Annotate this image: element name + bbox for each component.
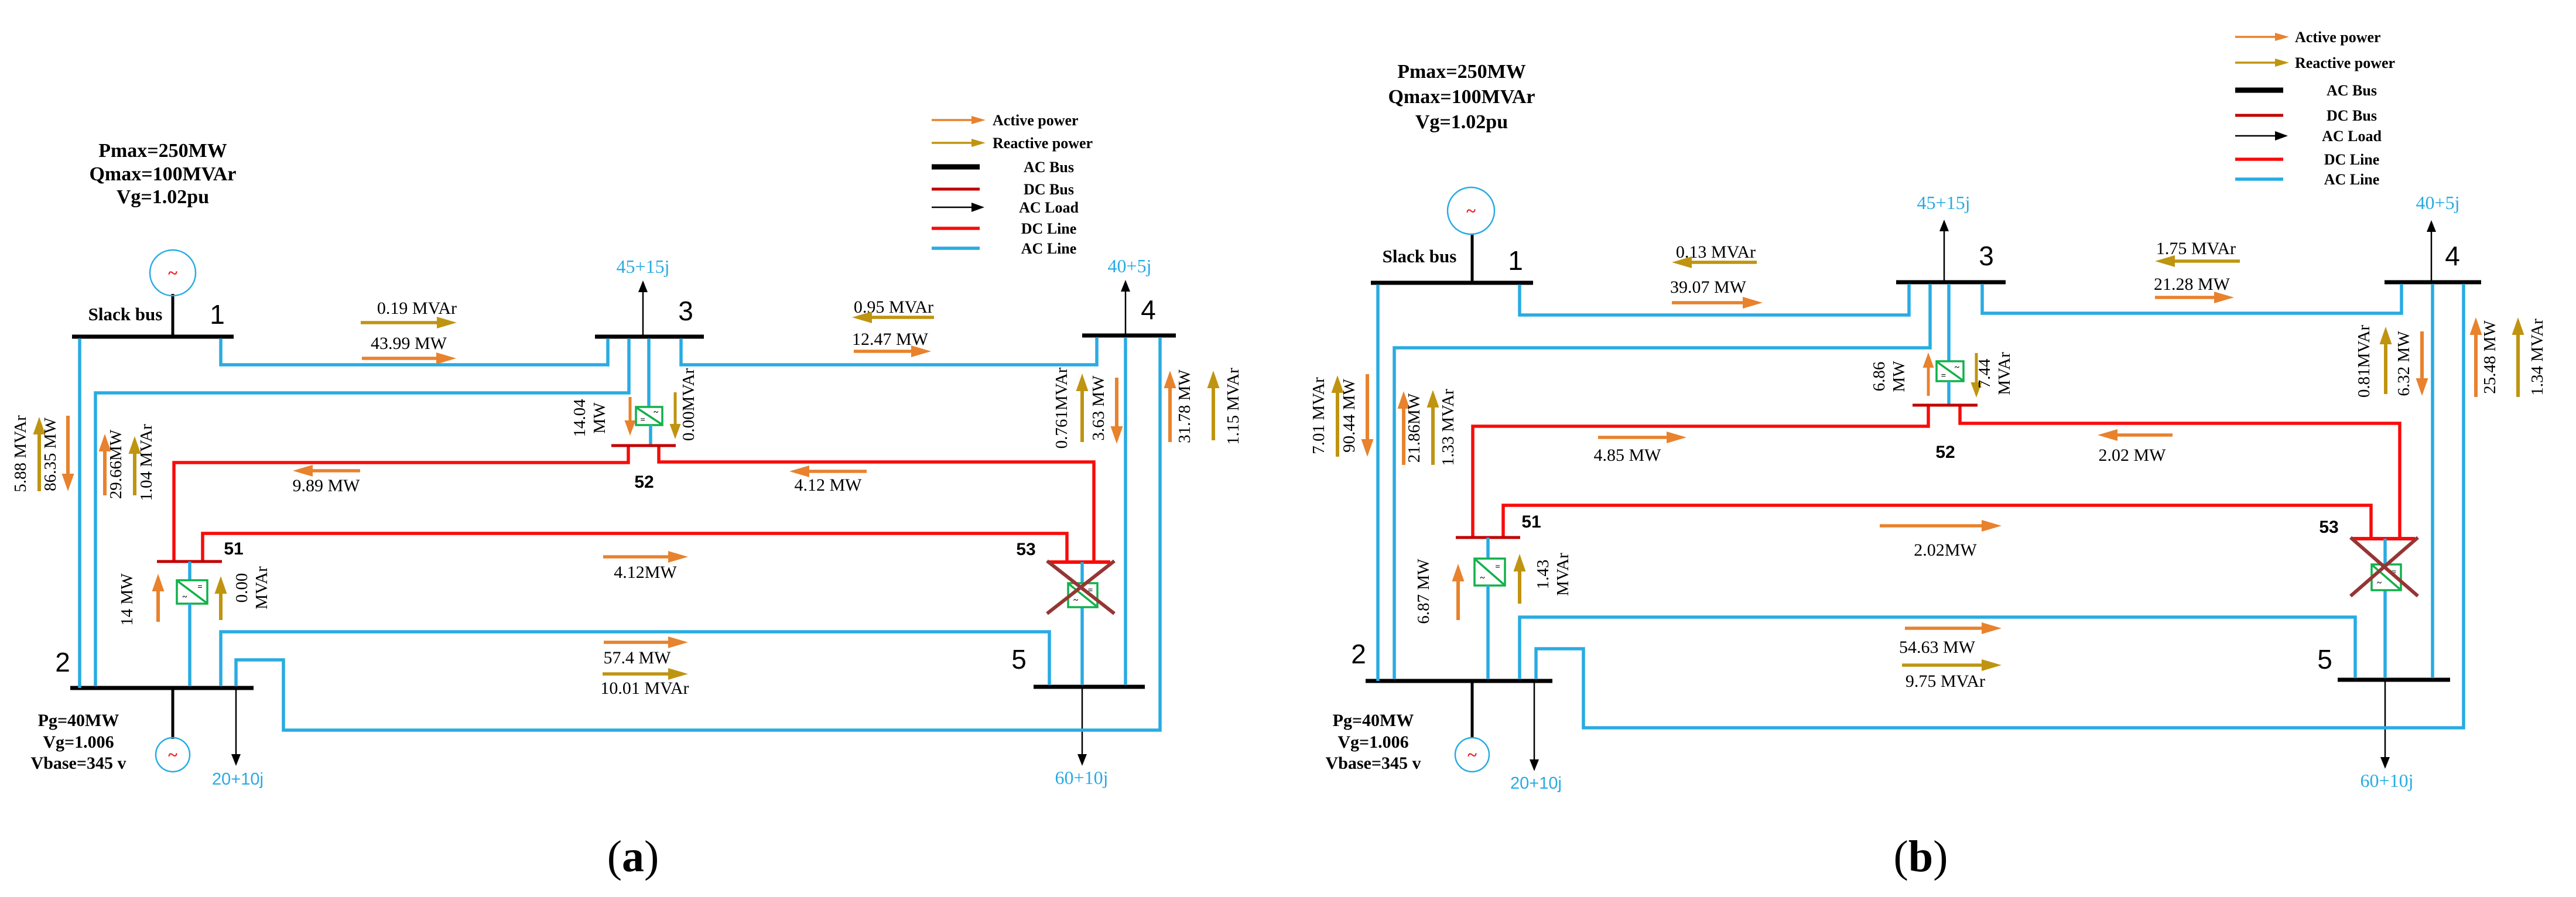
svg-text:Qmax=100MVAr: Qmax=100MVAr [1388, 86, 1535, 108]
svg-text:53: 53 [2319, 518, 2338, 537]
AC load at bus 3 (b) [1939, 220, 1949, 282]
svg-text:90.44 MW: 90.44 MW [1340, 379, 1359, 453]
active power arrow 4.12MW 51-53 (a) [603, 551, 688, 563]
AC bus 3 (a) [595, 335, 704, 339]
svg-text:=: = [197, 583, 203, 592]
DC bus 51 (b) [1456, 536, 1520, 539]
svg-text:~: ~ [1466, 201, 1476, 221]
AC line 2-5 (a) [221, 632, 1049, 686]
svg-text:20+10j: 20+10j [1510, 774, 1562, 793]
AC line 4-5 (b) [2431, 284, 2434, 678]
legend AC Bus swatch (b) [2235, 88, 2283, 93]
svg-text:AC Bus: AC Bus [1024, 159, 1074, 176]
generator G2 (b) [1455, 738, 1489, 772]
svg-text:MVAr: MVAr [1995, 352, 2014, 395]
svg-text:51: 51 [1521, 512, 1541, 532]
AC load at bus 2 (b) [1530, 681, 1539, 771]
svg-text:~: ~ [654, 408, 658, 417]
svg-text:1.43: 1.43 [1534, 560, 1552, 590]
svg-text:AC Load: AC Load [2322, 128, 2382, 145]
reactive power arrow 0.00 MVAr (a) [215, 576, 227, 620]
reactive power arrow 9.75 MVAr (b) [1902, 659, 2002, 671]
legend AC Bus swatch (a) [932, 165, 980, 170]
active power arrow 57.4 MW (a) [604, 636, 688, 648]
svg-text:60+10j: 60+10j [1055, 767, 1109, 788]
svg-text:14.04: 14.04 [570, 399, 589, 437]
DC line 51-52 (a) [174, 447, 628, 560]
svg-text:4.12MW: 4.12MW [614, 563, 677, 582]
svg-text:9.75 MVAr: 9.75 MVAr [1906, 672, 1985, 691]
svg-text:14 MW: 14 MW [118, 573, 136, 626]
active power arrow 9.89 MW (a) [293, 465, 360, 477]
reactive power arrow 0.95 MVAr (a) [852, 311, 934, 323]
generator G1 lead wire (b) [1471, 234, 1474, 285]
svg-text:DC Line: DC Line [2324, 151, 2380, 168]
svg-text:(a): (a) [607, 832, 659, 881]
svg-text:~: ~ [168, 745, 177, 765]
svg-text:DC Bus: DC Bus [2327, 107, 2377, 124]
active power arrow 90.44 MW (b) [1361, 374, 1374, 457]
legend AC Line swatch (b) [2235, 177, 2283, 181]
generator G2 (a) [156, 738, 190, 772]
AC line 1-3 (a) [221, 338, 608, 365]
AC bus 5 (a) [1034, 685, 1145, 689]
DC line 51-52 (b) [1473, 406, 1928, 536]
svg-text:5: 5 [2317, 644, 2332, 675]
DC bus 52 (b) [1913, 404, 1978, 407]
reactive power arrow 7.01 MVAr (b) [1332, 375, 1344, 457]
active power value 6.86 MW (b) [1870, 361, 1908, 392]
active power arrow 39.07 MW (b) [1672, 297, 1763, 309]
DC bus 52 (a) [611, 444, 676, 447]
svg-text:57.4 MW: 57.4 MW [604, 648, 672, 667]
svg-text:Slack bus: Slack bus [1383, 246, 1457, 266]
AC load at bus 5 (a) [1077, 687, 1087, 766]
active power arrow 4.12 MW 52-53 (a) [789, 465, 867, 477]
svg-text:2.02MW: 2.02MW [1914, 540, 1977, 560]
svg-text:4: 4 [2445, 241, 2460, 271]
AC line 3-4 (b) [1982, 284, 2401, 313]
svg-text:40+5j: 40+5j [1108, 255, 1152, 276]
legend Active power arrow (a) [932, 116, 986, 124]
AC line 1-2 (b) [1376, 285, 1380, 681]
active power arrow 12.47 MW (a) [854, 345, 931, 357]
AC load at bus 5 (b) [2380, 680, 2390, 769]
svg-text:52: 52 [1935, 443, 1955, 462]
svg-text:~: ~ [1955, 363, 1959, 372]
svg-text:Vg=1.006: Vg=1.006 [43, 732, 114, 752]
svg-text:0.00MVAr: 0.00MVAr [679, 368, 698, 441]
svg-text:~: ~ [2377, 578, 2382, 588]
AC line 1-2 (a) [78, 338, 81, 688]
svg-text:4.85 MW: 4.85 MW [1594, 446, 1662, 465]
AC bus 2 (a) [70, 686, 254, 690]
legend AC Line swatch (a) [932, 246, 980, 250]
legend Active power arrow (b) [2235, 33, 2289, 41]
svg-text:53: 53 [1016, 540, 1035, 559]
svg-text:Vg=1.02pu: Vg=1.02pu [1415, 111, 1508, 133]
svg-text:0.761MVAr: 0.761MVAr [1052, 367, 1071, 448]
converter 51 AC link lower (a) [188, 604, 191, 686]
reactive power arrow 1.34 MVAr (b) [2512, 317, 2524, 397]
active power arrow 29.66MW (a) [99, 434, 111, 495]
DC line 52-53 (b) [1960, 406, 2400, 537]
svg-text:12.47 MW: 12.47 MW [852, 330, 929, 349]
svg-text:=: = [1941, 371, 1946, 381]
svg-text:5: 5 [1011, 644, 1027, 675]
AC load at bus 3 (a) [638, 280, 648, 337]
active power value 14.04 MW (a) [570, 399, 609, 437]
AC bus 4 (b) [2385, 280, 2481, 285]
svg-text:Reactive power: Reactive power [2295, 54, 2395, 71]
AC load at bus 4 (a) [1121, 280, 1130, 335]
svg-text:~: ~ [1467, 745, 1477, 765]
svg-text:MW: MW [590, 402, 609, 434]
svg-text:7.01 MVAr: 7.01 MVAr [1309, 377, 1328, 454]
converter 51 AC link upper (b) [1486, 537, 1490, 559]
reactive power arrow 1.75 MVAr (b) [2155, 255, 2240, 267]
converter 52 (b) [1937, 361, 1963, 381]
svg-text:0.81MVAr: 0.81MVAr [2355, 324, 2373, 398]
AC line 4-5 (a) [1124, 337, 1127, 685]
converter 53 (a) [1068, 583, 1097, 607]
svg-text:Pmax=250MW: Pmax=250MW [1397, 61, 1526, 83]
active power arrow 54.63 MW (b) [1905, 622, 2002, 634]
active power arrow 6.87 MW (b) [1452, 564, 1465, 620]
AC line 2-3 (b) [1394, 284, 1930, 679]
svg-text:Qmax=100MVAr: Qmax=100MVAr [89, 163, 236, 185]
svg-text:51: 51 [224, 539, 243, 559]
svg-text:45+15j: 45+15j [1917, 192, 1971, 213]
svg-text:54.63 MW: 54.63 MW [1899, 638, 1976, 657]
reactive power arrow 0.81MVAr (b) [2380, 327, 2392, 394]
svg-text:MVAr: MVAr [1554, 553, 1572, 596]
reactive power value 7.44 MVAr (b) [1975, 352, 2014, 395]
legend DC Bus swatch (a) [932, 188, 980, 191]
legend Reactive power arrow (a) [932, 139, 986, 147]
AC bus 1 (b) [1371, 281, 1533, 285]
converter 53 outage cross (b) [2351, 537, 2418, 596]
svg-text:0.19 MVAr: 0.19 MVAr [377, 299, 457, 318]
svg-text:2: 2 [1351, 639, 1366, 669]
DC line 51-53 (b) [1503, 505, 2371, 537]
svg-text:AC Line: AC Line [1021, 240, 1077, 257]
svg-text:=: = [640, 416, 645, 425]
svg-text:MW: MW [1890, 361, 1908, 392]
svg-text:AC Load: AC Load [1019, 199, 1079, 216]
active power arrow 3.63 MW (a) [1111, 378, 1123, 444]
converter 51 (b) [1475, 559, 1505, 586]
reactive power arrow 1.15 MVAr (a) [1207, 371, 1220, 440]
svg-text:~: ~ [168, 263, 177, 283]
AC load at bus 4 (b) [2427, 220, 2436, 282]
active power arrow 21.86MW (b) [1398, 391, 1410, 465]
converter 51 AC link lower (b) [1486, 586, 1490, 679]
svg-text:45+15j: 45+15j [617, 256, 670, 277]
AC line 2-3 (a) [95, 338, 629, 686]
legend Reactive power arrow (b) [2235, 59, 2289, 67]
svg-text:MVAr: MVAr [252, 566, 271, 610]
DC bus 53 (a) [1049, 560, 1110, 564]
svg-text:6.87 MW: 6.87 MW [1414, 559, 1433, 624]
svg-text:4.12 MW: 4.12 MW [795, 475, 863, 495]
svg-text:DC Bus: DC Bus [1024, 181, 1074, 198]
svg-text:=: = [1495, 562, 1500, 571]
svg-text:10.01 MVAr: 10.01 MVAr [600, 679, 689, 698]
svg-text:6.32 MW: 6.32 MW [2394, 331, 2413, 396]
converter 52 AC link upper (b) [1947, 284, 1951, 361]
AC line 1-3 (b) [1520, 284, 1909, 315]
AC load at bus 2 (a) [231, 688, 241, 766]
DC bus 53 (b) [2352, 537, 2415, 540]
svg-text:25.48 MW: 25.48 MW [2481, 320, 2499, 394]
svg-text:DC Line: DC Line [1021, 220, 1077, 237]
svg-text:21.28 MW: 21.28 MW [2154, 275, 2231, 294]
svg-text:0.00: 0.00 [232, 573, 251, 603]
svg-text:4: 4 [1141, 295, 1156, 325]
svg-text:3: 3 [678, 296, 693, 326]
converter 52 AC link lower (b) [1947, 381, 1951, 405]
svg-text:2.02 MW: 2.02 MW [2099, 446, 2167, 465]
AC line 2-4 (a) [236, 337, 1160, 730]
svg-text:AC Bus: AC Bus [2327, 82, 2377, 99]
DC bus 51 (a) [157, 560, 222, 563]
DC line 51-53 (a) [203, 533, 1067, 561]
svg-text:1.75 MVAr: 1.75 MVAr [2156, 239, 2236, 258]
active power arrow 86.35 MW (a) [62, 416, 74, 491]
generator G1 (a) [150, 250, 196, 296]
active power arrow 21.28 MW (b) [2155, 292, 2234, 303]
svg-text:29.66MW: 29.66MW [107, 429, 125, 499]
svg-text:3.63 MW: 3.63 MW [1089, 375, 1108, 441]
generator G2 lead wire (b) [1471, 681, 1474, 738]
svg-text:1.34 MVAr: 1.34 MVAr [2528, 319, 2547, 396]
reactive power arrow 0.00MVAr (a) [670, 392, 681, 439]
svg-text:6.86: 6.86 [1870, 362, 1889, 392]
converter 51 AC link upper (a) [188, 562, 191, 580]
generator G1 (b) [1448, 187, 1494, 234]
reactive power arrow 1.04 MVAr (a) [129, 436, 141, 495]
legend DC Line swatch (a) [932, 227, 980, 230]
AC line 2-5 (b) [1520, 617, 2355, 679]
converter 53 AC link (a) [1080, 562, 1084, 685]
reactive power arrow 7.44 MVAr (b) [1971, 353, 1982, 398]
svg-text:Vbase=345 v: Vbase=345 v [31, 754, 126, 773]
svg-text:40+5j: 40+5j [2416, 192, 2460, 213]
reactive power arrow 0.19 MVAr (a) [361, 317, 457, 328]
svg-text:52: 52 [634, 473, 654, 492]
AC bus 4 (a) [1082, 334, 1176, 338]
svg-text:7.44: 7.44 [1975, 358, 1994, 388]
active power arrow 2.02MW 51-53 (b) [1880, 520, 2002, 532]
reactive power arrow 1.43 MVAr (b) [1514, 554, 1526, 604]
svg-text:Pg=40MW: Pg=40MW [38, 711, 119, 730]
reactive power value 0.00 MVAr (a) [232, 566, 271, 610]
active power arrow 6.86 MW (b) [1923, 352, 1934, 396]
svg-text:86.35 MW: 86.35 MW [41, 417, 60, 491]
svg-text:1: 1 [1508, 245, 1523, 276]
active power arrow 14 MW (a) [152, 574, 165, 622]
converter 52 AC link upper (a) [647, 338, 651, 407]
converter 53 outage cross (a) [1047, 561, 1114, 614]
svg-text:5.88 MVAr: 5.88 MVAr [11, 415, 30, 492]
AC bus 1 (a) [72, 335, 234, 339]
active power arrow 2.02 MW 52-53 (b) [2098, 429, 2173, 441]
svg-text:21.86MW: 21.86MW [1405, 393, 1424, 463]
svg-text:~: ~ [183, 593, 187, 602]
AC line 3-4 (a) [681, 337, 1097, 365]
active power arrow 25.48 MW (b) [2470, 317, 2482, 397]
converter 53 (b) [2372, 564, 2401, 590]
svg-text:Reactive power: Reactive power [993, 135, 1093, 152]
svg-text:43.99 MW: 43.99 MW [371, 334, 447, 353]
svg-text:Vg=1.02pu: Vg=1.02pu [117, 186, 209, 208]
svg-text:Pmax=250MW: Pmax=250MW [98, 140, 227, 162]
AC bus 3 (b) [1896, 280, 2006, 285]
svg-text:20+10j: 20+10j [212, 770, 264, 789]
active power arrow 14.04 MW (a) [625, 397, 636, 436]
active power arrow 31.78 MW (a) [1164, 371, 1176, 442]
legend DC Bus swatch (b) [2235, 114, 2283, 117]
svg-text:9.89 MW: 9.89 MW [293, 476, 361, 495]
svg-text:31.78 MW: 31.78 MW [1175, 369, 1194, 443]
generator G1 lead wire (a) [172, 294, 175, 338]
svg-text:2: 2 [55, 647, 70, 677]
generator G2 lead wire (a) [172, 688, 175, 739]
svg-text:Vg=1.006: Vg=1.006 [1337, 732, 1408, 752]
legend AC Load arrow (b) [2235, 131, 2288, 141]
svg-text:1.33 MVAr: 1.33 MVAr [1439, 389, 1458, 466]
AC bus 2 (b) [1366, 679, 1552, 683]
reactive power arrow 0.13 MVAr (b) [1672, 256, 1757, 268]
converter 52 (a) [636, 407, 662, 425]
svg-text:Slack bus: Slack bus [88, 304, 163, 324]
svg-text:1: 1 [210, 299, 225, 330]
svg-text:1.15 MVAr: 1.15 MVAr [1224, 368, 1243, 445]
reactive power arrow 0.761MVAr (a) [1076, 374, 1089, 442]
svg-text:3: 3 [1979, 241, 1994, 271]
svg-text:~: ~ [1480, 574, 1485, 583]
reactive power arrow 10.01 MVAr (a) [603, 668, 688, 680]
AC bus 5 (b) [2338, 678, 2450, 682]
legend AC Load arrow (a) [932, 203, 984, 212]
legend DC Line swatch (b) [2235, 158, 2283, 161]
DC line 52-53 (a) [659, 447, 1094, 561]
svg-text:Active power: Active power [2295, 29, 2381, 46]
svg-text:1.04 MVAr: 1.04 MVAr [137, 424, 156, 501]
svg-text:(b): (b) [1894, 832, 1948, 881]
active power arrow 43.99 MW (a) [362, 352, 456, 364]
svg-text:~: ~ [1073, 596, 1078, 605]
svg-text:Vbase=345 v: Vbase=345 v [1326, 754, 1421, 773]
active power arrow 4.85 MW (b) [1598, 432, 1686, 443]
converter 53 AC link (b) [2383, 539, 2387, 678]
reactive power arrow 5.88 MVAr (a) [33, 417, 46, 491]
svg-text:Active power: Active power [993, 112, 1079, 129]
svg-text:AC Line: AC Line [2324, 171, 2380, 188]
svg-text:60+10j: 60+10j [2361, 770, 2414, 791]
svg-text:Pg=40MW: Pg=40MW [1333, 711, 1414, 730]
reactive power value 1.43 MVAr (b) [1534, 553, 1572, 596]
active power arrow 6.32 MW (b) [2416, 331, 2428, 396]
svg-text:39.07 MW: 39.07 MW [1670, 278, 1747, 297]
AC line 2-4 (b) [1536, 284, 2464, 728]
converter 51 (a) [177, 580, 207, 604]
reactive power arrow 1.33 MVAr (b) [1427, 390, 1439, 465]
converter 52 AC link lower (a) [649, 425, 652, 446]
